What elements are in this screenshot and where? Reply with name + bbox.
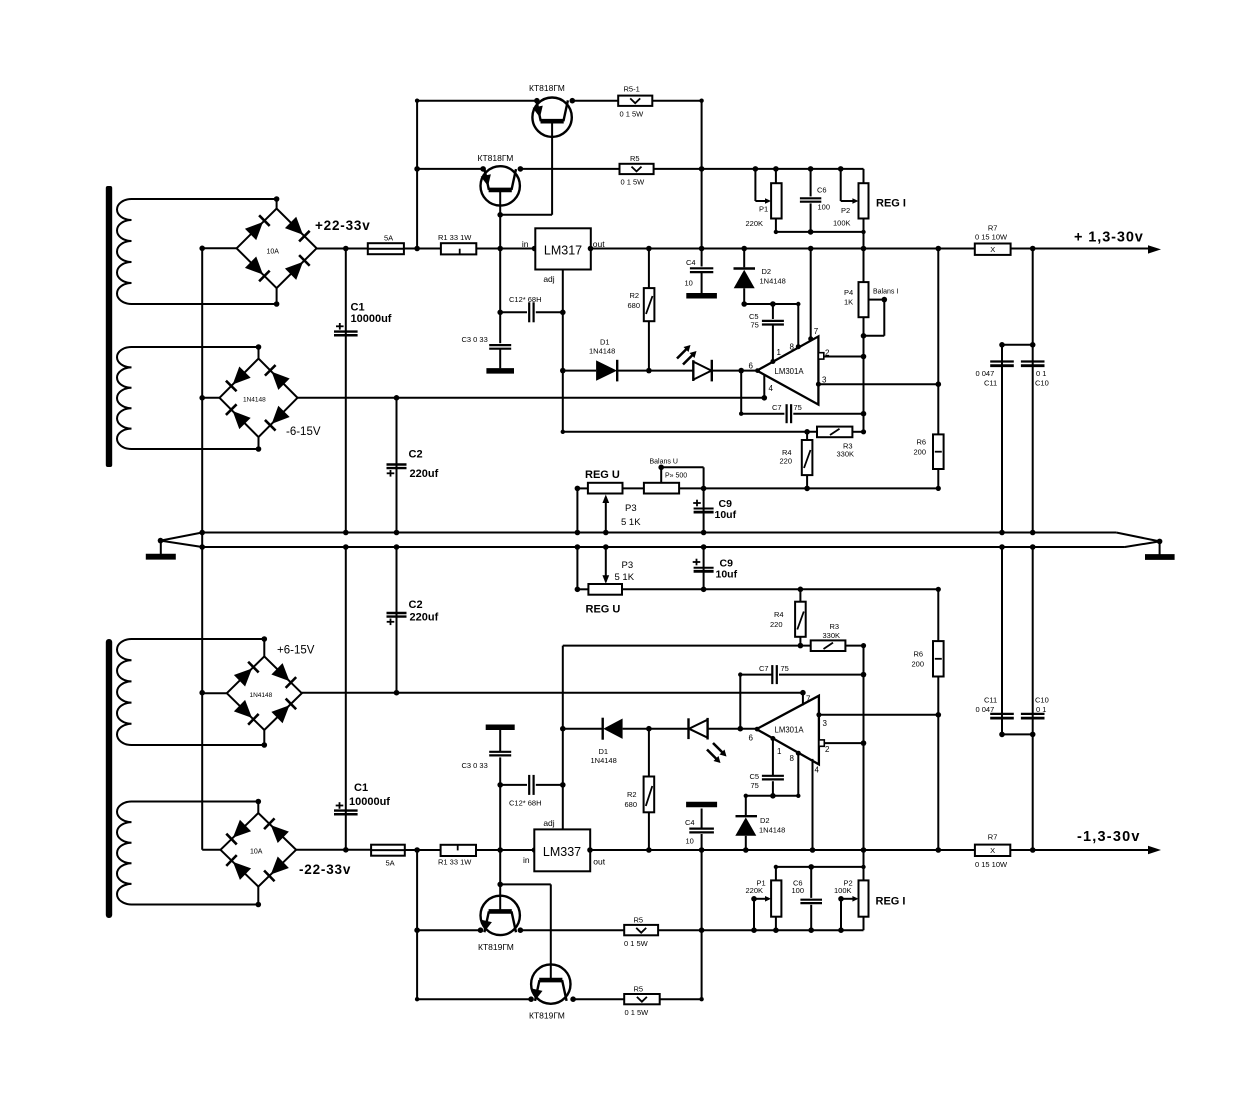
pin 7 (bottom) bbox=[802, 693, 804, 706]
potentiometer P1 220K bbox=[771, 183, 782, 218]
capacitor C2 220uf bbox=[396, 398, 398, 533]
capacitor C6 100 bbox=[810, 169, 812, 197]
svg-text:1: 1 bbox=[777, 348, 782, 357]
wire LM337 out to rail bbox=[590, 849, 975, 851]
wire P-network bottom line bbox=[776, 231, 864, 233]
transistor Q3 KT819GM bbox=[481, 896, 520, 935]
capacitor C9 10uf (bottom) bbox=[703, 547, 705, 589]
fuse F1 5A bbox=[368, 243, 404, 254]
wire Q1-Q2 base join bbox=[500, 214, 552, 216]
svg-text:D2: D2 bbox=[762, 267, 772, 276]
svg-text:C3 0 33: C3 0 33 bbox=[462, 335, 488, 344]
capacitor C4 10 bbox=[701, 249, 703, 267]
svg-text:10000uf: 10000uf bbox=[349, 796, 390, 808]
svg-text:P» 500: P» 500 bbox=[665, 473, 687, 480]
svg-text:adj: adj bbox=[543, 818, 554, 828]
wire Q4 base down bbox=[550, 884, 552, 980]
resistor R2 680 (bottom) bbox=[648, 812, 650, 850]
svg-text:220: 220 bbox=[770, 620, 783, 629]
wire right bus vertical bbox=[701, 101, 703, 249]
svg-text:5A: 5A bbox=[386, 859, 395, 868]
transformer winding W1 bbox=[117, 199, 131, 304]
svg-text:R2: R2 bbox=[627, 790, 637, 799]
svg-text:in: in bbox=[522, 239, 529, 249]
svg-text:75: 75 bbox=[781, 664, 789, 673]
pin 4 (bottom) bbox=[812, 759, 814, 850]
node 0V upper rail bbox=[202, 532, 1116, 534]
pin 8 bbox=[796, 344, 801, 349]
svg-text:LM317: LM317 bbox=[544, 244, 582, 258]
diode D2 1N4148 bbox=[743, 249, 745, 268]
svg-text:КТ819ГМ: КТ819ГМ bbox=[478, 942, 514, 952]
voltage regulator U3 LM337 bbox=[534, 829, 590, 871]
wire D2 to C5/pin8 line bbox=[744, 303, 798, 305]
wire P5 wiper bracket bbox=[660, 467, 662, 483]
svg-text:5 1K: 5 1K bbox=[621, 517, 641, 528]
transformer winding W3 bbox=[117, 639, 132, 745]
potentiometer P2 100K bbox=[859, 183, 869, 218]
wire LM317 in node down bbox=[499, 249, 501, 313]
ground left bbox=[160, 541, 162, 554]
wire P1 wiper bbox=[754, 169, 756, 201]
wire F2 to R13 bottom bbox=[405, 849, 441, 851]
op-amp U2 LM301A bbox=[757, 336, 819, 404]
wire adj line to R3 bbox=[563, 431, 817, 433]
svg-text:220K: 220K bbox=[746, 219, 764, 228]
pin 4 bbox=[763, 375, 765, 398]
svg-text:C7: C7 bbox=[772, 403, 782, 412]
svg-text:LM301A: LM301A bbox=[775, 367, 805, 376]
wire F1 to R13 bbox=[404, 248, 441, 250]
wire Q1 collector line bbox=[417, 100, 537, 102]
resistor R5 0.1 5W (bottom2) bbox=[624, 994, 660, 1004]
wire R5-1 to right bus bbox=[652, 100, 701, 102]
potentiometer P3 5.1K REG U bbox=[588, 483, 623, 494]
wire Q2 to R5 bbox=[520, 168, 619, 170]
svg-text:REG U: REG U bbox=[586, 604, 621, 616]
diode D1 1N4148 bbox=[563, 370, 596, 372]
svg-text:10: 10 bbox=[685, 279, 693, 288]
svg-text:in: in bbox=[523, 855, 530, 865]
svg-text:10A: 10A bbox=[267, 249, 280, 256]
pin 2 bbox=[818, 353, 823, 359]
LED VD1 emission arrows bbox=[677, 348, 688, 359]
svg-text:10A: 10A bbox=[250, 849, 263, 856]
svg-text:0 1: 0 1 bbox=[1036, 369, 1046, 378]
wire P3 to P5 bbox=[623, 487, 644, 489]
capacitor C1 10000uf (bottom) bbox=[345, 547, 347, 850]
transformer T1 core bbox=[106, 186, 112, 467]
svg-text:P3: P3 bbox=[625, 503, 637, 514]
svg-text:100: 100 bbox=[818, 203, 831, 212]
wire rails right convergence bbox=[1116, 533, 1159, 548]
svg-text:680: 680 bbox=[625, 800, 638, 809]
wire P3 wiper (bottom) bbox=[605, 547, 607, 582]
wire pin8 riser (bottom) bbox=[797, 753, 799, 796]
wire W1 top to bridge D-Br1 bbox=[132, 198, 277, 200]
svg-text:+ 1,3-30v: + 1,3-30v bbox=[1074, 230, 1144, 246]
svg-text:1N4148: 1N4148 bbox=[589, 347, 615, 356]
resistor R3 330K (bottom) bbox=[811, 640, 846, 651]
svg-text:0 15 10W: 0 15 10W bbox=[975, 233, 1008, 242]
wire P2 top riser / network (bottom) bbox=[776, 866, 864, 868]
svg-text:0 1 5W: 0 1 5W bbox=[624, 939, 649, 948]
svg-text:C10: C10 bbox=[1035, 379, 1049, 388]
svg-text:X: X bbox=[990, 245, 995, 254]
capacitor C7 75 (bottom) bbox=[739, 675, 741, 729]
wire Q3 base up to node bbox=[499, 850, 501, 911]
svg-text:D1: D1 bbox=[600, 338, 610, 347]
svg-text:C12* 68Н: C12* 68Н bbox=[509, 799, 542, 808]
svg-text:C5: C5 bbox=[750, 772, 760, 781]
svg-text:R2: R2 bbox=[630, 291, 640, 300]
transistor Q2 KT818GM bbox=[481, 166, 520, 205]
resistor R7 0.15 10W bbox=[975, 244, 1011, 255]
LED VD2 (bottom) bbox=[649, 728, 689, 730]
svg-text:R5: R5 bbox=[634, 916, 644, 925]
capacitor C10 0.1 (top) bbox=[1032, 249, 1034, 533]
wire W3 top to bridge Br4 bbox=[132, 638, 265, 640]
voltage regulator U1 LM317 bbox=[535, 228, 591, 269]
svg-text:R5-1: R5-1 bbox=[624, 85, 640, 94]
wire R5 to P-network line (bottom) bbox=[658, 929, 863, 931]
wire Q-bus vertical (bottom) bbox=[416, 850, 418, 999]
svg-text:-6-15V: -6-15V bbox=[286, 426, 321, 438]
wire Q3-Q4 base join bbox=[500, 883, 551, 885]
svg-text:P4: P4 bbox=[844, 288, 853, 297]
ground C4 (bottom) bbox=[686, 802, 717, 808]
svg-text:4: 4 bbox=[815, 766, 820, 775]
svg-text:C3 0 33: C3 0 33 bbox=[462, 761, 488, 770]
svg-text:330K: 330K bbox=[823, 631, 841, 640]
ground C3 (bottom) bbox=[486, 725, 515, 731]
svg-text:КТ818ГМ: КТ818ГМ bbox=[529, 83, 565, 93]
wire C11 bracket bbox=[1002, 344, 1033, 346]
svg-text:0 047: 0 047 bbox=[976, 705, 995, 714]
capacitor C3 0.33 bbox=[499, 312, 501, 343]
wire -6-15V line bbox=[298, 397, 765, 399]
potentiometer P3 5.1K REG U (bottom) bbox=[588, 584, 622, 595]
svg-text:P2: P2 bbox=[841, 206, 850, 215]
LED VD1 bbox=[649, 370, 693, 372]
pin 7 bbox=[810, 249, 812, 341]
transformer winding W4 bbox=[117, 802, 132, 905]
wire R7 to output arrow (bottom) bbox=[1010, 849, 1148, 851]
svg-text:220uf: 220uf bbox=[410, 468, 439, 480]
svg-text:100K: 100K bbox=[834, 886, 852, 895]
svg-text:7: 7 bbox=[814, 327, 819, 336]
wire Br1 to fuse F1 bbox=[317, 248, 368, 250]
svg-text:680: 680 bbox=[628, 301, 641, 310]
wire LM337 in node up bbox=[499, 785, 501, 850]
svg-text:1N4148: 1N4148 bbox=[250, 692, 273, 699]
svg-text:R5: R5 bbox=[630, 154, 640, 163]
wire Q1 to R5-1 bbox=[572, 100, 618, 102]
svg-text:10uf: 10uf bbox=[716, 569, 738, 581]
resistor R3 330K bbox=[817, 427, 852, 438]
svg-text:C4: C4 bbox=[686, 258, 696, 267]
svg-text:6: 6 bbox=[749, 362, 754, 371]
svg-text:C1: C1 bbox=[351, 302, 365, 314]
svg-text:75: 75 bbox=[794, 403, 802, 412]
svg-text:C10: C10 bbox=[1035, 696, 1049, 705]
svg-text:R1 33 1W: R1 33 1W bbox=[438, 858, 472, 867]
svg-text:2: 2 bbox=[825, 349, 830, 358]
svg-text:REG U: REG U bbox=[585, 469, 620, 481]
svg-text:1N4148: 1N4148 bbox=[759, 826, 785, 835]
svg-text:1: 1 bbox=[777, 747, 782, 756]
wire LM317 adj down bbox=[562, 270, 564, 432]
ground right bbox=[1159, 541, 1161, 554]
wire W4 bottom to bridge Br5 bbox=[132, 904, 259, 906]
svg-text:200: 200 bbox=[914, 448, 927, 457]
wire adj line to R3 (bottom) bbox=[563, 645, 811, 647]
svg-text:R6: R6 bbox=[914, 650, 924, 659]
svg-text:R3: R3 bbox=[830, 622, 840, 631]
bridge rectifier Br4 1N4148 bbox=[227, 656, 302, 730]
svg-text:7: 7 bbox=[806, 695, 811, 704]
node 0V lower rail bbox=[202, 546, 1125, 548]
svg-text:5 1K: 5 1K bbox=[615, 572, 635, 583]
wire +6-15V line bbox=[302, 692, 803, 694]
svg-text:out: out bbox=[593, 857, 605, 867]
svg-text:R6: R6 bbox=[917, 438, 927, 447]
svg-text:100: 100 bbox=[792, 886, 805, 895]
svg-text:1K: 1K bbox=[844, 298, 853, 307]
resistor R5-1 0.1 5W bbox=[618, 96, 652, 106]
wire R7 to output arrow bbox=[1011, 248, 1148, 250]
resistor R5 0.1 5W (bottom1) bbox=[624, 925, 658, 935]
transistor Q4 KT819GM bbox=[531, 964, 570, 1003]
wire LM337 adj up bbox=[562, 646, 564, 830]
svg-text:R5: R5 bbox=[634, 985, 644, 994]
svg-text:R4: R4 bbox=[774, 610, 784, 619]
svg-text:C7: C7 bbox=[759, 664, 769, 673]
svg-text:3: 3 bbox=[823, 719, 828, 728]
capacitor C3 0.33 (bottom) bbox=[499, 757, 501, 785]
svg-text:220uf: 220uf bbox=[410, 612, 439, 624]
wire Br1 left corner to ground bus bbox=[202, 247, 236, 249]
bridge rectifier Br5 10A bbox=[221, 813, 297, 887]
resistor R4 220 bbox=[806, 432, 808, 440]
svg-text:Balans I: Balans I bbox=[873, 289, 898, 296]
wire W3 bottom to bridge Br4 bbox=[132, 744, 265, 746]
capacitor C6 100 (bottom) bbox=[810, 867, 812, 898]
svg-text:75: 75 bbox=[751, 321, 759, 330]
wire Q2 emitter line bbox=[417, 168, 483, 170]
svg-text:100K: 100K bbox=[833, 219, 851, 228]
svg-text:R1 33 1W: R1 33 1W bbox=[438, 233, 472, 242]
diode D1 1N4148 (bottom) bbox=[563, 728, 603, 730]
svg-text:LM337: LM337 bbox=[543, 845, 581, 859]
wire W1 bottom to bridge D-Br1 bbox=[132, 303, 277, 305]
svg-text:0 15 10W: 0 15 10W bbox=[975, 860, 1008, 869]
svg-text:LM301A: LM301A bbox=[775, 726, 805, 735]
svg-text:-22-33v: -22-33v bbox=[299, 862, 351, 877]
wire REG-U line (bottom) bbox=[577, 588, 588, 590]
svg-text:0 1 5W: 0 1 5W bbox=[620, 110, 645, 119]
capacitor C2 220uf (bottom) bbox=[396, 547, 398, 693]
wire P5 to C9/R4/R6 bbox=[679, 487, 938, 489]
potentiometer P2 100K (bottom) bbox=[859, 880, 869, 916]
capacitor C5 75 (bottom) bbox=[772, 781, 774, 796]
transformer T1 core (bottom) bbox=[106, 639, 112, 918]
svg-text:R7: R7 bbox=[988, 224, 998, 233]
capacitor C11 0.047 (top) bbox=[1001, 345, 1003, 533]
svg-text:220: 220 bbox=[780, 457, 793, 466]
svg-text:C4: C4 bbox=[685, 818, 695, 827]
capacitor C1 10000uf bbox=[345, 249, 347, 533]
svg-text:C12* 68Н: C12* 68Н bbox=[509, 295, 542, 304]
wire R13 to LM317 in bbox=[476, 248, 535, 250]
svg-text:0 047: 0 047 bbox=[976, 369, 995, 378]
transformer winding W2 bbox=[117, 347, 132, 449]
svg-text:1N4148: 1N4148 bbox=[243, 397, 266, 404]
wire R5 to P-network line bbox=[654, 168, 864, 170]
wire REG-U line (top) bbox=[577, 487, 588, 489]
pin 1 (bottom) bbox=[770, 736, 775, 741]
svg-text:3: 3 bbox=[822, 376, 827, 385]
wire C11 bracket (bottom) bbox=[1002, 733, 1033, 735]
capacitor C7 75 bbox=[740, 371, 742, 414]
svg-text:C2: C2 bbox=[409, 449, 423, 461]
wire W4 top to bridge Br5 bbox=[132, 801, 259, 803]
wire R5 to right bus (bottom) bbox=[660, 998, 702, 1000]
svg-text:4: 4 bbox=[769, 384, 774, 393]
resistor R6 200 bbox=[937, 249, 939, 435]
bridge rectifier Br1 10A bbox=[237, 209, 317, 289]
pin 1 bbox=[770, 359, 775, 364]
wire pin8 drop bbox=[797, 304, 799, 347]
svg-text:C1: C1 bbox=[354, 782, 368, 794]
wire P2 bottom to rail bbox=[863, 232, 865, 249]
svg-text:+22-33v: +22-33v bbox=[315, 218, 371, 233]
svg-text:6: 6 bbox=[749, 734, 754, 743]
svg-text:2: 2 bbox=[825, 745, 830, 754]
wire P1 wiper (bottom) bbox=[753, 899, 755, 930]
wire LM317 out to rail bbox=[591, 248, 975, 250]
svg-text:C11: C11 bbox=[984, 696, 997, 705]
svg-text:10uf: 10uf bbox=[715, 509, 737, 521]
svg-text:C2: C2 bbox=[409, 599, 423, 611]
wire P3 wiper (top) bbox=[605, 497, 607, 533]
svg-text:10000uf: 10000uf bbox=[351, 313, 392, 325]
wire P4 wiper bracket bbox=[869, 299, 885, 301]
capacitor C9 10uf (top) bbox=[703, 488, 705, 532]
capacitor C11 0.047 (bottom) bbox=[1001, 547, 1003, 734]
ground C3 bbox=[486, 368, 514, 374]
svg-text:КТ819ГМ: КТ819ГМ bbox=[529, 1011, 565, 1021]
svg-text:C11: C11 bbox=[984, 379, 997, 388]
wire REG-I bus (bottom) bbox=[863, 646, 865, 850]
wire Q2 base down to node bbox=[499, 190, 501, 249]
svg-text:220K: 220K bbox=[746, 886, 764, 895]
bridge rectifier Br2 1N4148 bbox=[220, 359, 298, 438]
wire Q4 to R5 (bottom2) bbox=[573, 998, 624, 1000]
capacitor C4 10 (bottom) bbox=[701, 834, 703, 850]
pin 3 bbox=[816, 382, 821, 387]
svg-text:P3: P3 bbox=[622, 560, 634, 571]
resistor R13 3 1W (bottom) bbox=[441, 845, 476, 856]
capacitor C10 0.1 (bottom) bbox=[1032, 547, 1034, 850]
svg-text:8: 8 bbox=[790, 343, 795, 352]
wire Q-bus vertical bbox=[416, 101, 418, 249]
wire W2 bottom to bridge D-Br2 bbox=[132, 448, 259, 450]
resistor R13 3 1W bbox=[441, 243, 476, 254]
pin 8 (bottom) bbox=[796, 751, 801, 756]
wire Br2 left corner to ground bus bbox=[202, 397, 219, 399]
svg-text:C6: C6 bbox=[817, 186, 827, 195]
svg-text:0 1: 0 1 bbox=[1036, 705, 1046, 714]
op-amp U4 LM301A (bottom) bbox=[757, 696, 819, 765]
resistor R4 220 (bottom) bbox=[799, 637, 801, 646]
potentiometer P5 500 Balans U bbox=[644, 483, 679, 494]
wire Q3 to R5 (bottom1) bbox=[520, 929, 624, 931]
resistor R7 0.15 10W (bottom) bbox=[975, 845, 1010, 856]
svg-text:X: X bbox=[990, 846, 995, 855]
wire P2 wiper bbox=[840, 169, 842, 201]
wire rails left convergence bbox=[161, 533, 203, 548]
svg-text:P1: P1 bbox=[759, 205, 768, 214]
svg-text:D2: D2 bbox=[760, 816, 770, 825]
wire Q3 emitter line bbox=[417, 929, 480, 931]
capacitor C12 68H (bottom) bbox=[500, 784, 527, 786]
svg-text:0 1 5W: 0 1 5W bbox=[625, 1008, 650, 1017]
diode D2 1N4148 (bottom) bbox=[745, 836, 747, 850]
potentiometer P4 1K Balans I bbox=[863, 249, 865, 283]
resistor R2 680 bbox=[648, 249, 650, 289]
wire R13 to LM337 in bbox=[476, 849, 534, 851]
LED VD2 emission arrows bbox=[713, 743, 724, 754]
wire P3 to C9/R4/R6 (bottom) bbox=[622, 588, 938, 590]
svg-text:+6-15V: +6-15V bbox=[277, 645, 315, 657]
wire Br5 left to ground bus bbox=[202, 849, 220, 851]
resistor R6 200 (bottom) bbox=[937, 589, 939, 641]
wire D2 to C5/pin8 line (bottom) bbox=[746, 795, 799, 797]
svg-text:75: 75 bbox=[751, 781, 759, 790]
svg-text:1N4148: 1N4148 bbox=[760, 277, 786, 286]
svg-text:8: 8 bbox=[790, 754, 795, 763]
svg-text:Balans U: Balans U bbox=[650, 459, 678, 466]
svg-text:-1,3-30v: -1,3-30v bbox=[1077, 829, 1141, 845]
transistor Q1 KT818GM bbox=[532, 98, 571, 137]
svg-text:REG I: REG I bbox=[876, 896, 906, 908]
fuse F2 5A bbox=[371, 845, 405, 856]
ground bus vertical (left) bbox=[201, 248, 203, 850]
wire Q1 base down bbox=[551, 121, 553, 215]
svg-text:R7: R7 bbox=[988, 833, 998, 842]
wire P2 wiper (bottom) bbox=[840, 899, 842, 930]
resistor R5 0.1 5W bbox=[620, 164, 654, 174]
svg-text:D1: D1 bbox=[599, 747, 609, 756]
wire Br5 to fuse F2 bbox=[296, 849, 371, 851]
svg-text:200: 200 bbox=[912, 660, 925, 669]
capacitor C5 75 bbox=[772, 304, 774, 319]
pin 2 (bottom) bbox=[819, 740, 824, 746]
svg-text:REG I: REG I bbox=[876, 198, 906, 210]
pin 3 (bottom) bbox=[816, 712, 821, 717]
svg-text:0 1 5W: 0 1 5W bbox=[621, 178, 646, 187]
wire W2 top to bridge D-Br2 bbox=[132, 346, 259, 348]
wire Br4 left to ground bus bbox=[202, 692, 227, 694]
potentiometer P1 220K (bottom) bbox=[771, 880, 781, 916]
svg-text:5A: 5A bbox=[384, 234, 393, 243]
svg-text:10: 10 bbox=[686, 837, 694, 846]
wire right bus vertical (bottom) bbox=[701, 850, 703, 999]
ground C4 bbox=[686, 293, 717, 299]
svg-text:1N4148: 1N4148 bbox=[591, 756, 617, 765]
svg-text:330K: 330K bbox=[837, 450, 855, 459]
